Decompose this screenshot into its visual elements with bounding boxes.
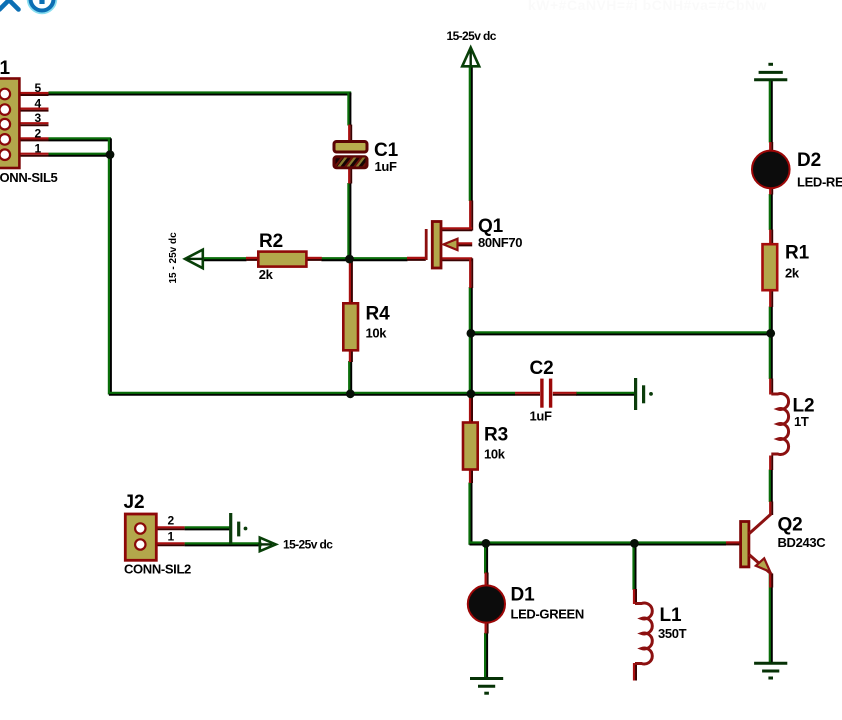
pin stub: J2 pin2 [156, 528, 184, 530]
svg-text:Q1: Q1 [478, 216, 504, 237]
pin stub: L2 top [771, 379, 773, 395]
wire: left long vertical x=110 [109, 138, 112, 394]
capacitor C1 (polarized) top plate [334, 142, 367, 153]
wire: Q1 source down through junctions (vertical green) [470, 287, 473, 398]
wire: R2 right green to junction [321, 259, 348, 262]
pin stub: J2 pin1 [156, 544, 184, 546]
base bar [741, 522, 749, 567]
wire: bottom horizontal y=543.4 [470, 543, 727, 546]
resistor R4 [343, 303, 358, 350]
svg-text:15 - 25v dc: 15 - 25v dc [168, 232, 179, 284]
node: L1 branch junction [630, 539, 639, 548]
node: J1 pin1/pin2 junction [106, 150, 115, 159]
node: D1 branch junction [482, 539, 491, 548]
pin stub: C2 left lead [515, 394, 540, 396]
ground (below Q2) [754, 663, 787, 678]
wire: R3 bottom green down to corner [470, 483, 473, 545]
svg-text:C1: C1 [374, 140, 399, 161]
pin stub: C2 right lead [553, 394, 577, 396]
close icon (blue X) top-left [0, 0, 20, 10]
connector J1 CONN-SIL5 [0, 79, 19, 169]
svg-text:Q2: Q2 [778, 515, 803, 536]
svg-text:350T: 350T [658, 626, 687, 641]
pin stub: C1 bottom [350, 168, 352, 184]
svg-text:R4: R4 [366, 304, 391, 325]
left arrow terminal (R2 input) [185, 250, 203, 269]
wire: J1 pin2 horizontal [49, 139, 112, 142]
pin stub: Q1 source vertical [471, 258, 473, 288]
right arrow terminal (J2 pin1 output) [258, 538, 276, 552]
pin stub: D1 top [487, 573, 489, 586]
pin stub: Q2 emitter vertical [771, 574, 773, 588]
pin stub: R3 bottom [471, 470, 473, 484]
wire: R2 left green [203, 259, 247, 262]
pin stub: R2 left [246, 259, 259, 261]
svg-text:2k: 2k [785, 266, 800, 281]
pin stub: L1 bottom open end [635, 663, 637, 681]
power arrow (15-25v dc, up) [462, 48, 479, 67]
svg-text:3: 3 [35, 111, 42, 125]
inductor L2 1T [771, 393, 788, 454]
svg-text:1T: 1T [794, 414, 809, 429]
wire: J1 pin1 horizontal [49, 154, 112, 157]
node: R3 top junction [467, 389, 476, 398]
pin stub: Q1 gate lead [407, 259, 426, 261]
pin stub: R4 top [351, 259, 353, 305]
svg-text:J1: J1 [0, 58, 10, 79]
svg-text:2: 2 [35, 126, 42, 140]
svg-text:15-25v dc: 15-25v dc [447, 29, 497, 43]
svg-text:2k: 2k [259, 267, 274, 282]
svg-text:R2: R2 [259, 231, 283, 252]
emitter arrowhead [756, 558, 770, 572]
svg-text:1: 1 [35, 142, 42, 156]
terminal (C2 right, socket symbol) [636, 378, 653, 410]
node: R4 bottom junction [346, 389, 355, 398]
led D2 LED-RED [752, 151, 790, 189]
svg-text:C2: C2 [530, 358, 554, 379]
pin stub: Q1 drain horizontal [441, 229, 472, 231]
svg-text:LED-GREEN: LED-GREEN [511, 607, 584, 622]
svg-text:15-25v dc: 15-25v dc [283, 538, 333, 552]
led D1 LED-GREEN [468, 585, 505, 622]
wire: C1 bottom to R2 junction (vertical) [349, 183, 352, 260]
resistor R3 [463, 423, 478, 470]
wire: mid horizontal y=333.3 [470, 333, 772, 336]
bulk arrow [444, 239, 458, 250]
pin stub: C1 top [350, 125, 352, 142]
svg-text:1uF: 1uF [375, 159, 397, 174]
wire: long horizontal y=393.8 from x=110 to C2 [109, 393, 515, 396]
wire: D2 to R1 green [770, 194, 773, 230]
node: Q1 source / mid-rail junction [467, 329, 476, 338]
pin stub: L1 top [635, 589, 637, 604]
connector J2 CONN-SIL2 [125, 514, 156, 560]
wire: D1 bottom green to ground [485, 633, 488, 678]
channel bar [432, 222, 441, 269]
pin stub: Q2 base [726, 543, 741, 545]
wire: J2 pin2 green to terminal [185, 528, 230, 531]
pin stub: J1 pin3 [19, 124, 48, 126]
svg-text:2: 2 [168, 514, 175, 528]
gate bar [425, 229, 428, 260]
svg-text:1: 1 [168, 530, 175, 544]
pin stub: Q2 collector vertical [771, 502, 773, 516]
pin stub: J1 pin2 [19, 139, 48, 141]
pin stub: Q1 drain vertical [471, 201, 473, 231]
wire: D2 top green from flag [770, 81, 773, 143]
wire: J1 pin5 to C1 top (horizontal) [49, 93, 352, 96]
wire: C2 right green to terminal [576, 393, 634, 396]
inverted ground / power flag (above D2) [754, 64, 787, 80]
pin stub: D2 bottom [771, 188, 773, 195]
svg-text:D1: D1 [511, 585, 536, 606]
pin stub: Q1 bulk arrow horizontal [455, 244, 472, 246]
wire: L2 to Q2 collector green [770, 470, 773, 503]
pin stub: L2 bottom [771, 456, 773, 471]
watermark smudge top right [528, 0, 767, 13]
svg-text:BD243C: BD243C [778, 535, 827, 550]
capacitor C2 [542, 379, 551, 408]
wire: D1 top green [485, 543, 488, 574]
pin stub: Q1 source horizontal [441, 259, 472, 261]
svg-text:4: 4 [35, 97, 42, 111]
pin stub: R1 bottom [771, 290, 773, 308]
svg-text:80NF70: 80NF70 [478, 235, 522, 250]
pin stub: D2 top [771, 142, 773, 151]
capacitor C1 bottom plate (hatched) [334, 155, 372, 169]
svg-text:J2: J2 [124, 492, 145, 513]
emitter diagonal [749, 555, 772, 575]
svg-text:5: 5 [35, 81, 42, 95]
pin stub: R3 top [471, 397, 473, 424]
svg-text:LED-RED: LED-RED [797, 175, 842, 190]
svg-text:10k: 10k [484, 447, 506, 462]
wire: power arrow down to Q1 drain (vertical green) [470, 67, 473, 202]
collector diagonal [749, 514, 771, 534]
pin stub: R2 right [306, 259, 322, 261]
wire: junction to L2 green [770, 333, 773, 379]
svg-text:kW+#CaNVH=#i bCNH#va=#CbNw: kW+#CaNVH=#i bCNH#va=#CbNw [528, 0, 767, 13]
pin stub: J1 pin1 [19, 155, 48, 157]
wire: L1 green [634, 543, 637, 590]
mosfet Q1 80NF70 [426, 222, 457, 269]
pin stub: J1 pin4 [19, 110, 48, 112]
svg-text:R3: R3 [484, 425, 508, 446]
svg-text:R1: R1 [785, 243, 810, 264]
wire: corner down to C1 (vertical) [349, 93, 352, 126]
pin stub: J1 pin5 [19, 94, 48, 96]
pin stub: R4 bottom [351, 350, 353, 363]
inductor L1 350T [635, 603, 652, 664]
svg-text:CONN-SIL5: CONN-SIL5 [0, 170, 58, 185]
ground (below D1) [470, 679, 503, 694]
wire: junction to Q1 gate green [350, 259, 408, 262]
wire: R1 to junction green [770, 307, 773, 335]
wire: R4 bottom to junction (vertical) [350, 361, 353, 395]
wire: Q2 emitter to ground green [770, 574, 773, 662]
svg-text:10k: 10k [366, 326, 388, 341]
info icon (blue circle) top-left [31, 0, 54, 11]
svg-text:CONN-SIL2: CONN-SIL2 [124, 562, 191, 577]
node: R2/C1/R4/gate junction [345, 255, 354, 264]
resistor R1 [763, 244, 778, 290]
svg-text:1uF: 1uF [530, 409, 552, 424]
node: mid-rail right junction [766, 329, 775, 338]
resistor R2 [258, 252, 306, 267]
terminal (J2 pin2, socket symbol) [231, 513, 248, 544]
pin stub: D1 bottom [487, 623, 489, 634]
pin stub: R1 top [771, 230, 773, 246]
svg-text:D2: D2 [797, 150, 821, 171]
svg-text:L1: L1 [660, 605, 683, 626]
wire: J2 pin1 green to arrow [185, 544, 262, 547]
transistor Q2 BD243C [741, 514, 772, 574]
